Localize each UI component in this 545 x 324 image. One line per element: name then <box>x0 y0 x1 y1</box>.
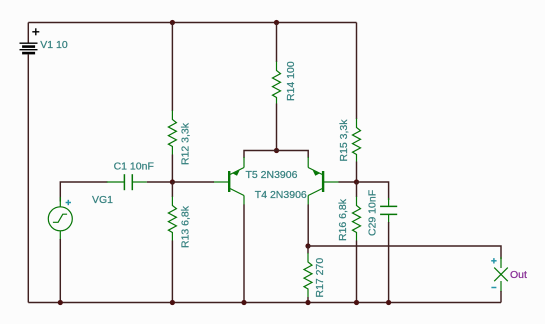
svg-text:V1 10: V1 10 <box>40 39 68 51</box>
resistor R15 <box>353 119 361 162</box>
wire: out top <box>308 246 501 259</box>
wire: R17 top <box>307 246 309 254</box>
transistor T4 <box>308 157 339 205</box>
svg-text:T4 2N3906: T4 2N3906 <box>255 189 307 201</box>
node: bottom rail R16 <box>354 300 359 305</box>
wire: emitter rail <box>244 151 308 159</box>
wire: R16 top <box>356 182 358 197</box>
wire: T4 base <box>339 181 357 183</box>
svg-text:R17 270: R17 270 <box>314 258 326 298</box>
node: bottom rail R13 <box>170 300 175 305</box>
node: emitter rail <box>274 148 279 153</box>
wire: C29 bottom <box>388 222 390 303</box>
pin Out <box>494 257 508 292</box>
svg-text:T5 2N3906: T5 2N3906 <box>246 169 298 181</box>
wire: R14 top <box>276 23 278 63</box>
transistor T5 <box>214 157 245 205</box>
plus sign Out <box>491 258 496 287</box>
wire: T5 collector down <box>243 205 245 303</box>
wire: T4 collector down <box>307 205 309 247</box>
resistor R14 <box>273 62 281 104</box>
svg-text:R12 3,3k: R12 3,3k <box>180 122 192 165</box>
wire: R12 top <box>171 23 173 112</box>
node: bottom rail R17 <box>305 300 310 305</box>
wire: R15 bottom <box>356 162 358 183</box>
wire: VG1 bottom <box>59 239 61 303</box>
wire: R17 bottom <box>307 297 309 303</box>
svg-text:C1 10nF: C1 10nF <box>114 160 154 172</box>
wire: R16 bottom <box>356 241 358 303</box>
capacitor C29 <box>380 198 397 223</box>
node: top rail R14 <box>274 20 279 25</box>
node: T4 collector / R17 / out <box>305 243 310 248</box>
svg-text:C29 10nF: C29 10nF <box>367 190 379 236</box>
wire: top rail <box>28 22 356 24</box>
wire: R12 bottom <box>171 155 173 183</box>
wire: C1 to node <box>147 181 173 183</box>
battery V1 <box>20 28 40 53</box>
wire: T5 base <box>172 181 214 183</box>
svg-text:R15 3,3k: R15 3,3k <box>338 119 350 162</box>
wire: R13 top <box>171 182 173 197</box>
wire: battery bottom lead <box>27 54 29 302</box>
wire: bottom rail <box>28 302 501 304</box>
resistor R12 <box>168 111 176 155</box>
wire: R15 top <box>356 23 358 120</box>
node: bottom rail T5 <box>241 300 246 305</box>
capacitor C1 <box>107 174 147 190</box>
svg-text:Out: Out <box>510 269 527 281</box>
svg-text:R14 100: R14 100 <box>285 61 297 101</box>
svg-text:VG1: VG1 <box>92 194 113 206</box>
resistor R13 <box>168 197 176 241</box>
node: top rail / R12 <box>170 20 175 25</box>
wire: out bottom <box>500 291 502 303</box>
node: bottom rail C29 <box>386 300 391 305</box>
node: T4 base / R15 / R16 / C29 <box>354 179 359 184</box>
plus sign VG1 <box>66 200 71 205</box>
wire: battery top lead <box>27 23 29 43</box>
generator VG1 <box>48 197 72 240</box>
wire: node to C29 <box>357 182 389 200</box>
resistor R17 <box>304 253 312 297</box>
wire: R13 bottom <box>171 241 173 303</box>
node: C1/R12/R13/T5 base <box>170 179 175 184</box>
node: bottom rail VG1 <box>58 300 63 305</box>
resistor R16 <box>353 197 361 241</box>
svg-text:R16 6,8k: R16 6,8k <box>337 198 349 241</box>
wire: VG1 top to C1 <box>60 182 107 202</box>
svg-text:R13 6,8k: R13 6,8k <box>180 205 192 248</box>
wire: R14 bottom <box>276 104 278 151</box>
